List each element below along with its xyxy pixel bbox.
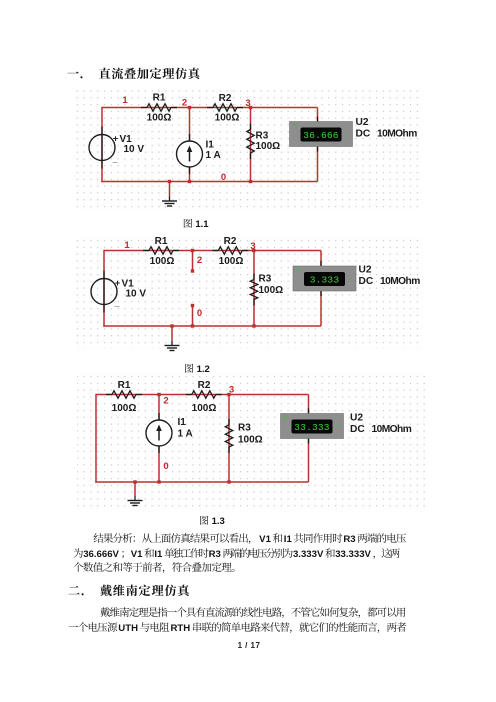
label V1 circuit2 [113, 278, 146, 308]
resistor R3 circuit1 [247, 124, 254, 160]
wire: circuit2 node2 stub [192, 251, 194, 272]
label R1 circuit2 [150, 236, 175, 267]
svg-text:U2: U2 [350, 413, 363, 424]
wire: circuit1 R3 branch vertical [250, 108, 252, 182]
svg-text:DC: DC [356, 129, 371, 140]
voltage source V1 circuit1 [89, 127, 115, 169]
svg-text:100Ω: 100Ω [147, 113, 172, 124]
resistor R1 circuit3 [106, 391, 142, 398]
svg-text:R3: R3 [259, 274, 272, 285]
svg-text:U2: U2 [359, 265, 372, 276]
svg-text:1: 1 [122, 95, 128, 106]
label U2 circuit2 [359, 265, 421, 288]
wire: circuit2 node0 stub [192, 306, 194, 327]
caption figure 1.3 [199, 514, 225, 527]
svg-text:10MOhm: 10MOhm [380, 276, 420, 287]
label R1 circuit3 [112, 380, 137, 414]
wire: circuit3 top rail [96, 395, 309, 415]
wire: circuit1 left branch vertical [101, 107, 103, 182]
svg-text:0: 0 [221, 172, 226, 183]
resistor R2 circuit2 [212, 247, 248, 254]
svg-text:36.666: 36.666 [303, 130, 339, 141]
junction dots circuit3 [133, 393, 230, 484]
svg-text:100Ω: 100Ω [238, 435, 263, 446]
svg-text:10 V: 10 V [124, 144, 145, 155]
label R3 circuit3 [238, 423, 263, 446]
current source I1 circuit1 [177, 134, 203, 174]
wire: circuit1 bottom rail node0 [101, 146, 317, 182]
ground circuit3 [128, 482, 143, 506]
section heading 2 [68, 585, 190, 597]
wire: circuit3 bottom rail [95, 438, 308, 482]
ground circuit1 [162, 182, 177, 207]
label R2 circuit3 [192, 380, 217, 414]
multimeter U2 circuit1 [290, 117, 353, 152]
node 0 label circuit1 [221, 172, 226, 183]
caption figure 1.2 [184, 362, 210, 375]
page footer [238, 640, 261, 652]
circuit 2 canvas grid [75, 236, 423, 349]
svg-text:+: + [115, 278, 120, 288]
svg-text:1: 1 [124, 240, 130, 251]
svg-text:100Ω: 100Ω [259, 285, 284, 296]
svg-text:100Ω: 100Ω [215, 113, 240, 124]
wire: circuit2 bottom rail [103, 290, 321, 326]
node 0 label circuit2 [197, 308, 202, 319]
svg-text:R1: R1 [153, 93, 166, 104]
wire: circuit3 left branch [95, 394, 97, 483]
svg-text:R3: R3 [238, 423, 251, 434]
svg-text:R2: R2 [219, 93, 232, 104]
resistor R2 circuit1 [207, 104, 243, 111]
svg-text:+: + [293, 123, 297, 130]
wire: circuit3 I1 branch [158, 395, 160, 483]
caption figure 1.1 [183, 217, 209, 230]
node 2 label circuit3 [163, 396, 168, 407]
svg-text:I1: I1 [178, 417, 187, 428]
svg-text:0: 0 [163, 461, 168, 472]
svg-text:10MOhm: 10MOhm [372, 424, 412, 435]
wire: circuit2 R3 branch [253, 251, 255, 327]
label I1 circuit1 [206, 140, 221, 162]
junction dots circuit2 [170, 249, 255, 328]
svg-text:1 A: 1 A [206, 150, 221, 161]
svg-text:-: - [345, 129, 348, 138]
multimeter U2 circuit3 [281, 409, 344, 444]
voltage source V1 circuit2 [91, 271, 117, 313]
resistor R1 circuit1 [141, 104, 177, 111]
label U2 circuit3 [350, 413, 412, 436]
junction dots circuit1 [168, 106, 252, 183]
circuit 1 canvas grid [75, 90, 420, 211]
svg-text:-: - [336, 421, 339, 430]
svg-text:2: 2 [182, 98, 187, 109]
section heading 1 [67, 68, 200, 80]
svg-text:R2: R2 [224, 236, 237, 247]
label R3 circuit1 [256, 131, 281, 153]
svg-text:DC: DC [350, 424, 365, 435]
label R2 circuit1 [215, 93, 240, 124]
svg-text:+: + [113, 134, 118, 144]
svg-text:+: + [284, 415, 288, 422]
label U2 circuit1 [356, 117, 418, 140]
svg-text:100Ω: 100Ω [219, 256, 244, 267]
svg-text:R1: R1 [118, 380, 131, 391]
label R2 circuit2 [219, 236, 244, 267]
resistor R3 circuit2 [250, 274, 257, 306]
paragraph 2 line 2 [68, 622, 406, 635]
wire: circuit2 left branch [103, 250, 105, 327]
svg-text:1 A: 1 A [178, 429, 193, 440]
node 2 label circuit1 [182, 98, 187, 109]
resistor R1 circuit2 [143, 247, 179, 254]
paragraph 1 line 2 [73, 548, 398, 561]
svg-text:2: 2 [197, 255, 202, 266]
svg-text:100Ω: 100Ω [256, 141, 281, 152]
node 0 label circuit3 [163, 461, 168, 472]
svg-text:33.333: 33.333 [294, 422, 330, 433]
svg-text:100Ω: 100Ω [112, 403, 137, 414]
multimeter U2 circuit2 [293, 261, 356, 296]
svg-text:10 V: 10 V [126, 289, 147, 300]
paragraph 1 line 1 [93, 533, 405, 546]
node 3 label circuit3 [229, 385, 234, 396]
svg-text:U2: U2 [356, 117, 369, 128]
node 1 label circuit1 [122, 95, 128, 106]
svg-text:+: + [297, 268, 301, 275]
node 3 label circuit2 [250, 241, 255, 252]
paragraph 1 line 3 [73, 562, 241, 574]
node 1 label circuit2 [124, 240, 130, 251]
svg-text:3.333: 3.333 [310, 275, 340, 286]
circuit 3 canvas grid [77, 372, 425, 512]
resistor R2 circuit3 [186, 391, 222, 398]
label R3 circuit2 [259, 274, 284, 297]
svg-text:100Ω: 100Ω [150, 256, 175, 267]
resistor R3 circuit3 [225, 419, 232, 453]
svg-text:_: _ [111, 154, 118, 164]
paragraph 2 line 1 [100, 607, 405, 619]
label I1 circuit3 [178, 417, 193, 440]
svg-text:100Ω: 100Ω [192, 403, 217, 414]
wire: circuit1 I1 branch vertical [189, 108, 191, 182]
node 2 label circuit2 [197, 255, 202, 266]
wire: circuit3 R3 branch [228, 395, 230, 483]
node 3 label circuit1 [245, 98, 250, 109]
wire: circuit1 top rail node1-node2-node3 to meter branch [102, 108, 318, 123]
svg-text:_: _ [113, 298, 120, 308]
svg-text:-: - [348, 274, 351, 283]
svg-text:0: 0 [197, 308, 202, 319]
label V1 value circuit1 [111, 134, 144, 165]
svg-text:R1: R1 [155, 236, 168, 247]
ground circuit2 [165, 326, 180, 351]
svg-text:R3: R3 [256, 131, 269, 142]
current source I1 circuit3 [146, 413, 172, 453]
svg-text:2: 2 [163, 396, 168, 407]
svg-text:I1: I1 [206, 140, 215, 151]
svg-text:10MOhm: 10MOhm [377, 129, 417, 140]
wire: circuit2 top rail [104, 251, 321, 267]
label R1 circuit1 [147, 93, 172, 124]
svg-text:R2: R2 [198, 380, 211, 391]
svg-text:DC: DC [359, 276, 374, 287]
